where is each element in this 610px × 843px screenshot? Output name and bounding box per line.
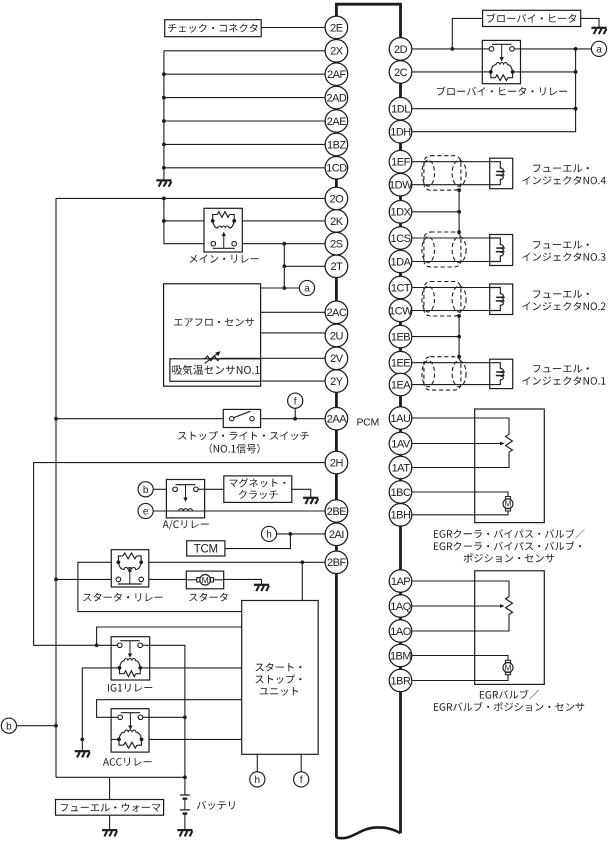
pin 2E: [325, 16, 348, 39]
svg-text:1BZ: 1BZ: [327, 139, 346, 151]
wire PCM bus bottom break: [336, 827, 400, 838]
ACC relay contacts: [118, 715, 123, 720]
pin 2O: [325, 187, 348, 210]
EGR valve position sensor potentiometer: [506, 597, 513, 615]
pin 1AO: [389, 620, 412, 643]
check connector label: [168, 24, 258, 33]
wire 1AQ wiper: [412, 605, 501, 607]
wire f to 2AA: [294, 409, 296, 419]
shield injector NO.1: [424, 357, 461, 390]
pin 1DX: [389, 201, 412, 224]
EGR cooler bypass valve box: [475, 409, 545, 523]
wire 1AU: [412, 418, 509, 434]
wire IG1 coil left to ground rail: [82, 667, 111, 669]
wire IG1 contact feed: [95, 643, 99, 647]
wire 1AO: [412, 615, 509, 632]
stop light switch label 2: [210, 444, 260, 454]
EGR cooler bypass valve label line2: [434, 541, 581, 550]
wire 2S contact left: [164, 243, 204, 245]
svg-text:1BH: 1BH: [391, 510, 411, 522]
svg-text:1AV: 1AV: [391, 438, 411, 450]
svg-text:M: M: [202, 575, 209, 585]
wire IG1 contact right down: [150, 645, 185, 795]
A/C relay contacts: [172, 488, 173, 490]
wire 1DL: [412, 108, 576, 110]
wire 2BF through starter relay coil right: [149, 561, 325, 563]
pin 2X: [325, 40, 348, 63]
battery B1: [180, 794, 190, 796]
pin 2BE: [325, 500, 348, 523]
svg-text:h: h: [255, 775, 261, 786]
wire relay to node a: [521, 48, 592, 50]
blow-by heater box: [483, 10, 581, 26]
wire 2AA right: [261, 418, 326, 420]
svg-text:1BC: 1BC: [391, 487, 411, 499]
svg-text:2E: 2E: [330, 22, 343, 34]
node b (battery feed): [1, 718, 16, 733]
svg-text:2AC: 2AC: [326, 307, 346, 319]
ground fuel warmer: [102, 829, 117, 831]
wire 2BE: [153, 510, 325, 512]
IG1 relay label: [108, 684, 152, 692]
svg-text:1DL: 1DL: [391, 104, 410, 116]
intake air temp sensor NO.1 label box: [170, 359, 261, 382]
wire shield drain 1DX: [458, 190, 460, 232]
wire starter relay contact left: [56, 578, 111, 580]
start stop unit label line2: [255, 675, 301, 684]
svg-text:2BE: 2BE: [327, 506, 346, 518]
wire 2BF coil left down to unit: [78, 562, 242, 611]
svg-text:2H: 2H: [330, 458, 344, 470]
wire TCM to 2AI: [225, 534, 291, 549]
svg-text:1AQ: 1AQ: [390, 601, 411, 613]
wire ACC coil right to unit: [149, 738, 242, 740]
svg-text:f: f: [294, 396, 297, 407]
wire PCM left bus line: [335, 16, 338, 838]
ground IG1/ACC coils: [75, 750, 90, 752]
injector NO.3 label line2: [522, 252, 605, 261]
svg-text:2X: 2X: [330, 46, 344, 58]
start stop unit box: [242, 601, 319, 755]
A/C relay label: [163, 520, 209, 530]
pin 1DL: [389, 97, 412, 120]
wire supply vertical left: [55, 198, 57, 777]
node a (airflow): [299, 280, 314, 295]
EGR valve box: [475, 571, 545, 685]
pin 1BH: [389, 504, 412, 527]
node f (unit): [294, 772, 309, 787]
node f (stop light): [288, 393, 303, 408]
wire injector NO.3 bottom: [412, 261, 490, 263]
svg-text:1BR: 1BR: [391, 675, 411, 687]
svg-text:2AE: 2AE: [327, 116, 346, 128]
svg-text:b: b: [6, 721, 12, 732]
pin 1BC: [389, 481, 412, 504]
pin 1CW: [389, 299, 412, 322]
main relay contacts: [211, 241, 216, 246]
fuel injector NO.3 body: [490, 235, 513, 266]
EGR valve label line2: [434, 702, 584, 711]
svg-text:e: e: [143, 507, 149, 518]
wire ACC contact left to unit: [97, 700, 242, 718]
pin 2AI: [325, 523, 348, 546]
wire 2K coil left: [164, 220, 204, 222]
check connector box: [165, 20, 262, 37]
svg-text:1AP: 1AP: [391, 576, 410, 588]
pin 2C: [389, 61, 412, 84]
pin 2AA: [325, 407, 348, 430]
wire ACC contact right: [149, 716, 185, 718]
pin 1AP: [389, 570, 412, 593]
svg-text:2BF: 2BF: [327, 557, 346, 569]
injector NO.1 label line1: [533, 365, 589, 373]
svg-text:2AD: 2AD: [326, 93, 346, 105]
ACC relay box: [111, 709, 149, 752]
pin 1DW: [389, 173, 412, 196]
wire 2E to check connector: [261, 27, 325, 29]
ground starter: [254, 584, 269, 586]
fuel warmer box: [56, 800, 164, 816]
pin 2D: [389, 38, 412, 61]
svg-text:2AF: 2AF: [327, 69, 346, 81]
svg-text:2T: 2T: [330, 261, 343, 273]
svg-text:1DH: 1DH: [390, 127, 411, 139]
injector NO.4 label line2: [522, 176, 605, 185]
magnet clutch box: [224, 476, 292, 503]
wire 1BR: [412, 675, 508, 681]
wire 2C: [412, 71, 483, 73]
wire 1BC: [412, 492, 508, 497]
pin 2Y: [325, 370, 348, 393]
magnet clutch label line1: [229, 478, 285, 487]
injector NO.1 label line2: [522, 376, 605, 385]
wire 2S to 2T branch vertical: [283, 244, 285, 288]
thermistor intake air temp sensor: [206, 356, 220, 361]
wire blow-by heater right to ground: [581, 18, 599, 27]
ACC relay label: [103, 758, 152, 766]
node h (TCM): [261, 526, 276, 541]
wire 2AF: [164, 73, 325, 75]
svg-text:M: M: [505, 500, 512, 509]
EGR valve label line1: [480, 690, 539, 700]
ground battery: [177, 829, 192, 831]
stop light switch contacts: [230, 417, 234, 421]
pin 2AF: [325, 63, 348, 86]
wire 2T: [284, 265, 325, 267]
wire blow-by heater left: [452, 18, 482, 49]
svg-text:2AI: 2AI: [329, 529, 344, 541]
starter relay label: [83, 593, 163, 602]
svg-text:1EB: 1EB: [391, 332, 410, 344]
ground for 2X group: [156, 179, 171, 181]
EGR cooler position sensor potentiometer: [506, 434, 513, 452]
wire PCM bus top connector: [336, 4, 400, 38]
wire unit pin to node h: [256, 754, 258, 771]
wire 1BM: [412, 656, 508, 661]
wire 2AD: [164, 97, 325, 99]
wire 1AT: [412, 452, 509, 467]
wire 2O: [56, 197, 325, 199]
pin 2AC: [325, 301, 348, 324]
wire 2V: [220, 357, 325, 359]
svg-text:b: b: [143, 485, 149, 496]
shield injector NO.2: [424, 282, 461, 317]
wire 2AI: [277, 533, 325, 535]
wire 2BF branch to unit top: [301, 562, 303, 600]
pin 1CS: [389, 227, 412, 250]
svg-text:2O: 2O: [330, 193, 345, 205]
main relay U1 box: [204, 208, 242, 252]
pin 1DA: [389, 250, 412, 273]
magnet clutch label line2: [239, 490, 278, 499]
pin 2S: [325, 232, 348, 255]
injector NO.2 label line1: [533, 290, 589, 298]
svg-text:1BM: 1BM: [390, 650, 411, 662]
wire fuel warmer feed: [109, 777, 111, 799]
starter relay contacts: [116, 577, 121, 582]
pin 2K: [325, 210, 348, 233]
pin 1AT: [389, 456, 412, 479]
pin 1AV: [389, 432, 412, 455]
blow-by heater relay label: [437, 86, 567, 95]
main relay coil: [211, 219, 215, 223]
pin 2BF: [325, 551, 348, 574]
wire injector NO.3 top: [412, 237, 490, 239]
wire injector NO.2 bottom: [412, 310, 490, 312]
wire injector NO.2 top: [412, 287, 490, 289]
pin 2T: [325, 255, 348, 278]
wire 2U: [261, 332, 326, 334]
wire 2S contact right: [242, 243, 325, 245]
fuel injector NO.2 body: [490, 284, 513, 315]
svg-text:PCM: PCM: [356, 416, 378, 428]
wire 2AE: [164, 120, 325, 122]
svg-text:M: M: [505, 663, 512, 672]
wire 1BH: [412, 511, 508, 515]
svg-text:1DX: 1DX: [391, 207, 412, 219]
wire injector NO.1 bottom: [412, 384, 490, 386]
starter relay coil: [117, 560, 121, 564]
pin 2H: [325, 451, 348, 474]
shield injector NO.3: [424, 232, 461, 267]
wire relay coil ground vertical: [81, 668, 83, 751]
wire 2H: [34, 463, 326, 646]
svg-text:a: a: [596, 45, 602, 56]
wire 2X: [164, 50, 325, 52]
wire b to supply rail: [17, 725, 56, 727]
intake air temp sensor label: [172, 365, 259, 375]
wire A/C contacts to magnet clutch: [205, 488, 224, 490]
injector NO.2 label line2: [522, 302, 605, 311]
A/C relay box: [166, 480, 204, 518]
pin 1CT: [389, 276, 412, 299]
wire 2AC: [261, 311, 326, 313]
wire 1AV wiper: [412, 443, 501, 445]
airflow sensor label: [174, 318, 254, 326]
wire fuel warmer to ground: [109, 815, 111, 830]
wire 1DX: [412, 211, 459, 213]
svg-text:1CD: 1CD: [326, 163, 347, 175]
wire magnet clutch to ground: [292, 489, 311, 497]
pin 1BR: [389, 669, 412, 692]
svg-text:1DW: 1DW: [389, 180, 413, 192]
node a (top right): [591, 41, 606, 56]
starter relay box: [111, 550, 149, 587]
fuel injector NO.1 body: [490, 359, 513, 388]
pin 2AD: [325, 86, 348, 109]
battery label: [197, 801, 235, 810]
wire supply rail bottom: [56, 776, 185, 778]
fuel warmer label: [61, 803, 161, 812]
wire 1CD: [164, 167, 325, 169]
wire shield drain 1EB: [458, 316, 460, 357]
svg-text:2K: 2K: [330, 216, 344, 228]
A/C relay coil curls: [179, 509, 193, 511]
IG1 relay box: [111, 637, 150, 680]
svg-text:2V: 2V: [330, 353, 344, 365]
wire battery to ground: [184, 814, 186, 830]
pin 1EE: [389, 351, 412, 374]
ground blow-by heater: [591, 27, 606, 29]
wire injector NO.4 top: [412, 161, 490, 163]
wire 1DH: [412, 49, 576, 132]
node e (A/C): [138, 503, 153, 518]
blow-by heater label: [487, 14, 576, 23]
svg-text:2C: 2C: [394, 67, 408, 79]
wire unit pin to node f: [300, 754, 302, 771]
svg-text:1EA: 1EA: [391, 380, 411, 392]
IG1 relay coil: [118, 666, 122, 670]
IG1 relay contacts: [118, 643, 123, 648]
fuel injector NO.4 body: [490, 158, 513, 189]
svg-text:2U: 2U: [330, 330, 344, 342]
pin 1EF: [389, 150, 412, 173]
wire 2Y: [261, 380, 326, 382]
wire starter relay to starter: [149, 578, 187, 580]
pin 1BZ: [325, 133, 348, 156]
wire 2K coil right: [242, 220, 325, 222]
node h (unit): [250, 772, 265, 787]
blow-by heater relay contacts: [489, 47, 494, 52]
injector NO.4 label line1: [533, 164, 589, 172]
wire PCM right bus line: [399, 38, 402, 834]
svg-text:2D: 2D: [394, 44, 408, 56]
start stop unit label line3: [260, 687, 298, 696]
wire starter to ground: [224, 579, 262, 584]
ACC relay coil: [117, 738, 121, 742]
node b (A/C): [138, 482, 153, 497]
main relay label: [190, 255, 259, 263]
pin 1DH: [389, 120, 412, 143]
svg-text:1AT: 1AT: [392, 462, 411, 474]
wire 1AP: [412, 581, 509, 597]
wire injector NO.4 bottom: [412, 184, 490, 186]
stop light switch label: [178, 431, 309, 440]
wire relay coil right to junction: [521, 71, 576, 73]
svg-text:1CS: 1CS: [391, 233, 411, 245]
svg-text:1EF: 1EF: [391, 157, 410, 169]
svg-text:2Y: 2Y: [330, 376, 344, 388]
wire main relay branch vertical: [163, 198, 165, 243]
svg-text:1AO: 1AO: [390, 626, 411, 638]
wire 2X group junction vertical: [163, 51, 165, 180]
svg-text:a: a: [304, 284, 310, 295]
pin 1EA: [389, 373, 412, 396]
ground magnet clutch: [303, 497, 318, 499]
svg-text:TCM: TCM: [194, 543, 218, 555]
starter label: [189, 593, 228, 602]
wire b to A/C relay contacts: [153, 488, 166, 490]
svg-text:f: f: [300, 775, 303, 786]
svg-text:1AU: 1AU: [391, 413, 411, 425]
pin 2V: [325, 347, 348, 370]
wire IG1 coil right to unit: [150, 667, 242, 669]
wire unit to IG1 contact junction: [97, 627, 242, 645]
EGR cooler bypass valve motor: [505, 497, 510, 500]
pin 2U: [325, 324, 348, 347]
starter motor symbol: [186, 579, 197, 581]
svg-text:1CW: 1CW: [389, 305, 413, 317]
TCM box: [187, 541, 225, 556]
stop light switch box: [223, 409, 260, 427]
svg-text:1CT: 1CT: [391, 282, 411, 294]
starter box: [186, 571, 223, 589]
EGR cooler bypass valve label line3: [464, 553, 554, 562]
svg-text:2AA: 2AA: [327, 414, 347, 426]
svg-text:1DA: 1DA: [391, 256, 412, 268]
svg-text:1EE: 1EE: [391, 358, 410, 370]
pin 1CD: [325, 157, 348, 180]
wire 2D: [412, 48, 483, 50]
pin 1EB: [389, 325, 412, 348]
start stop unit label line1: [255, 663, 301, 672]
shield injector NO.4: [424, 156, 461, 191]
wire airflow sensor to node a: [261, 287, 300, 289]
EGR cooler bypass valve label line1: [434, 529, 585, 539]
EGR valve motor: [505, 660, 510, 663]
wire injector NO.1 top: [412, 362, 490, 364]
wire 2AA left: [56, 418, 223, 420]
airflow sensor box: [164, 284, 261, 386]
blow-by heater relay box: [482, 40, 520, 83]
blow-by heater relay coil: [489, 70, 493, 74]
pin 2AE: [325, 110, 348, 133]
wire 1BZ: [164, 143, 325, 145]
pin 1BM: [389, 644, 412, 667]
svg-text:2S: 2S: [330, 239, 343, 251]
pin 1AU: [389, 407, 412, 430]
pin 1AQ: [389, 595, 412, 618]
wire 1EB: [412, 336, 459, 338]
svg-text:h: h: [266, 530, 272, 541]
injector NO.3 label line1: [533, 241, 589, 249]
